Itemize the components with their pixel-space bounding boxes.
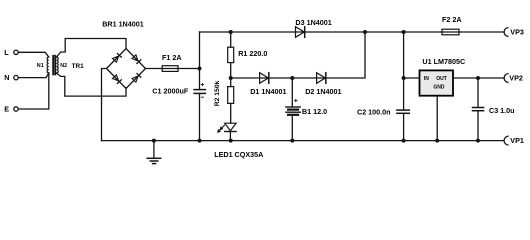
svg-text:OUT: OUT xyxy=(436,76,447,82)
svg-text:VP1: VP1 xyxy=(510,136,524,145)
svg-text:F1 2A: F1 2A xyxy=(162,53,182,62)
svg-text:D3 1N4001: D3 1N4001 xyxy=(295,18,331,27)
svg-text:N2: N2 xyxy=(60,63,67,69)
svg-text:C2 100.0n: C2 100.0n xyxy=(357,107,391,116)
svg-text:D2 1N4001: D2 1N4001 xyxy=(305,87,341,96)
svg-text:TR1: TR1 xyxy=(72,63,85,70)
svg-text:D1 1N4001: D1 1N4001 xyxy=(250,87,286,96)
svg-text:N: N xyxy=(4,73,9,82)
svg-text:E: E xyxy=(4,105,9,114)
svg-text:C1 2000uF: C1 2000uF xyxy=(152,87,189,96)
svg-text:VP2: VP2 xyxy=(509,74,523,83)
svg-text:BR1 1N4001: BR1 1N4001 xyxy=(102,19,144,28)
svg-text:N1: N1 xyxy=(37,63,44,69)
svg-text:L: L xyxy=(4,48,9,57)
svg-text:U1 LM7805C: U1 LM7805C xyxy=(422,57,465,66)
svg-text:R1 220.0: R1 220.0 xyxy=(238,49,267,58)
svg-text:C3 1.0u: C3 1.0u xyxy=(489,106,515,115)
svg-text:F2 2A: F2 2A xyxy=(442,15,462,24)
svg-text:LED1 CQX35A: LED1 CQX35A xyxy=(214,150,263,159)
svg-text:GND: GND xyxy=(433,84,445,90)
svg-text:B1 12.0: B1 12.0 xyxy=(302,107,327,116)
svg-text:IN: IN xyxy=(424,76,429,82)
svg-text:VP3: VP3 xyxy=(510,28,524,37)
svg-text:R2 150k: R2 150k xyxy=(214,80,221,106)
